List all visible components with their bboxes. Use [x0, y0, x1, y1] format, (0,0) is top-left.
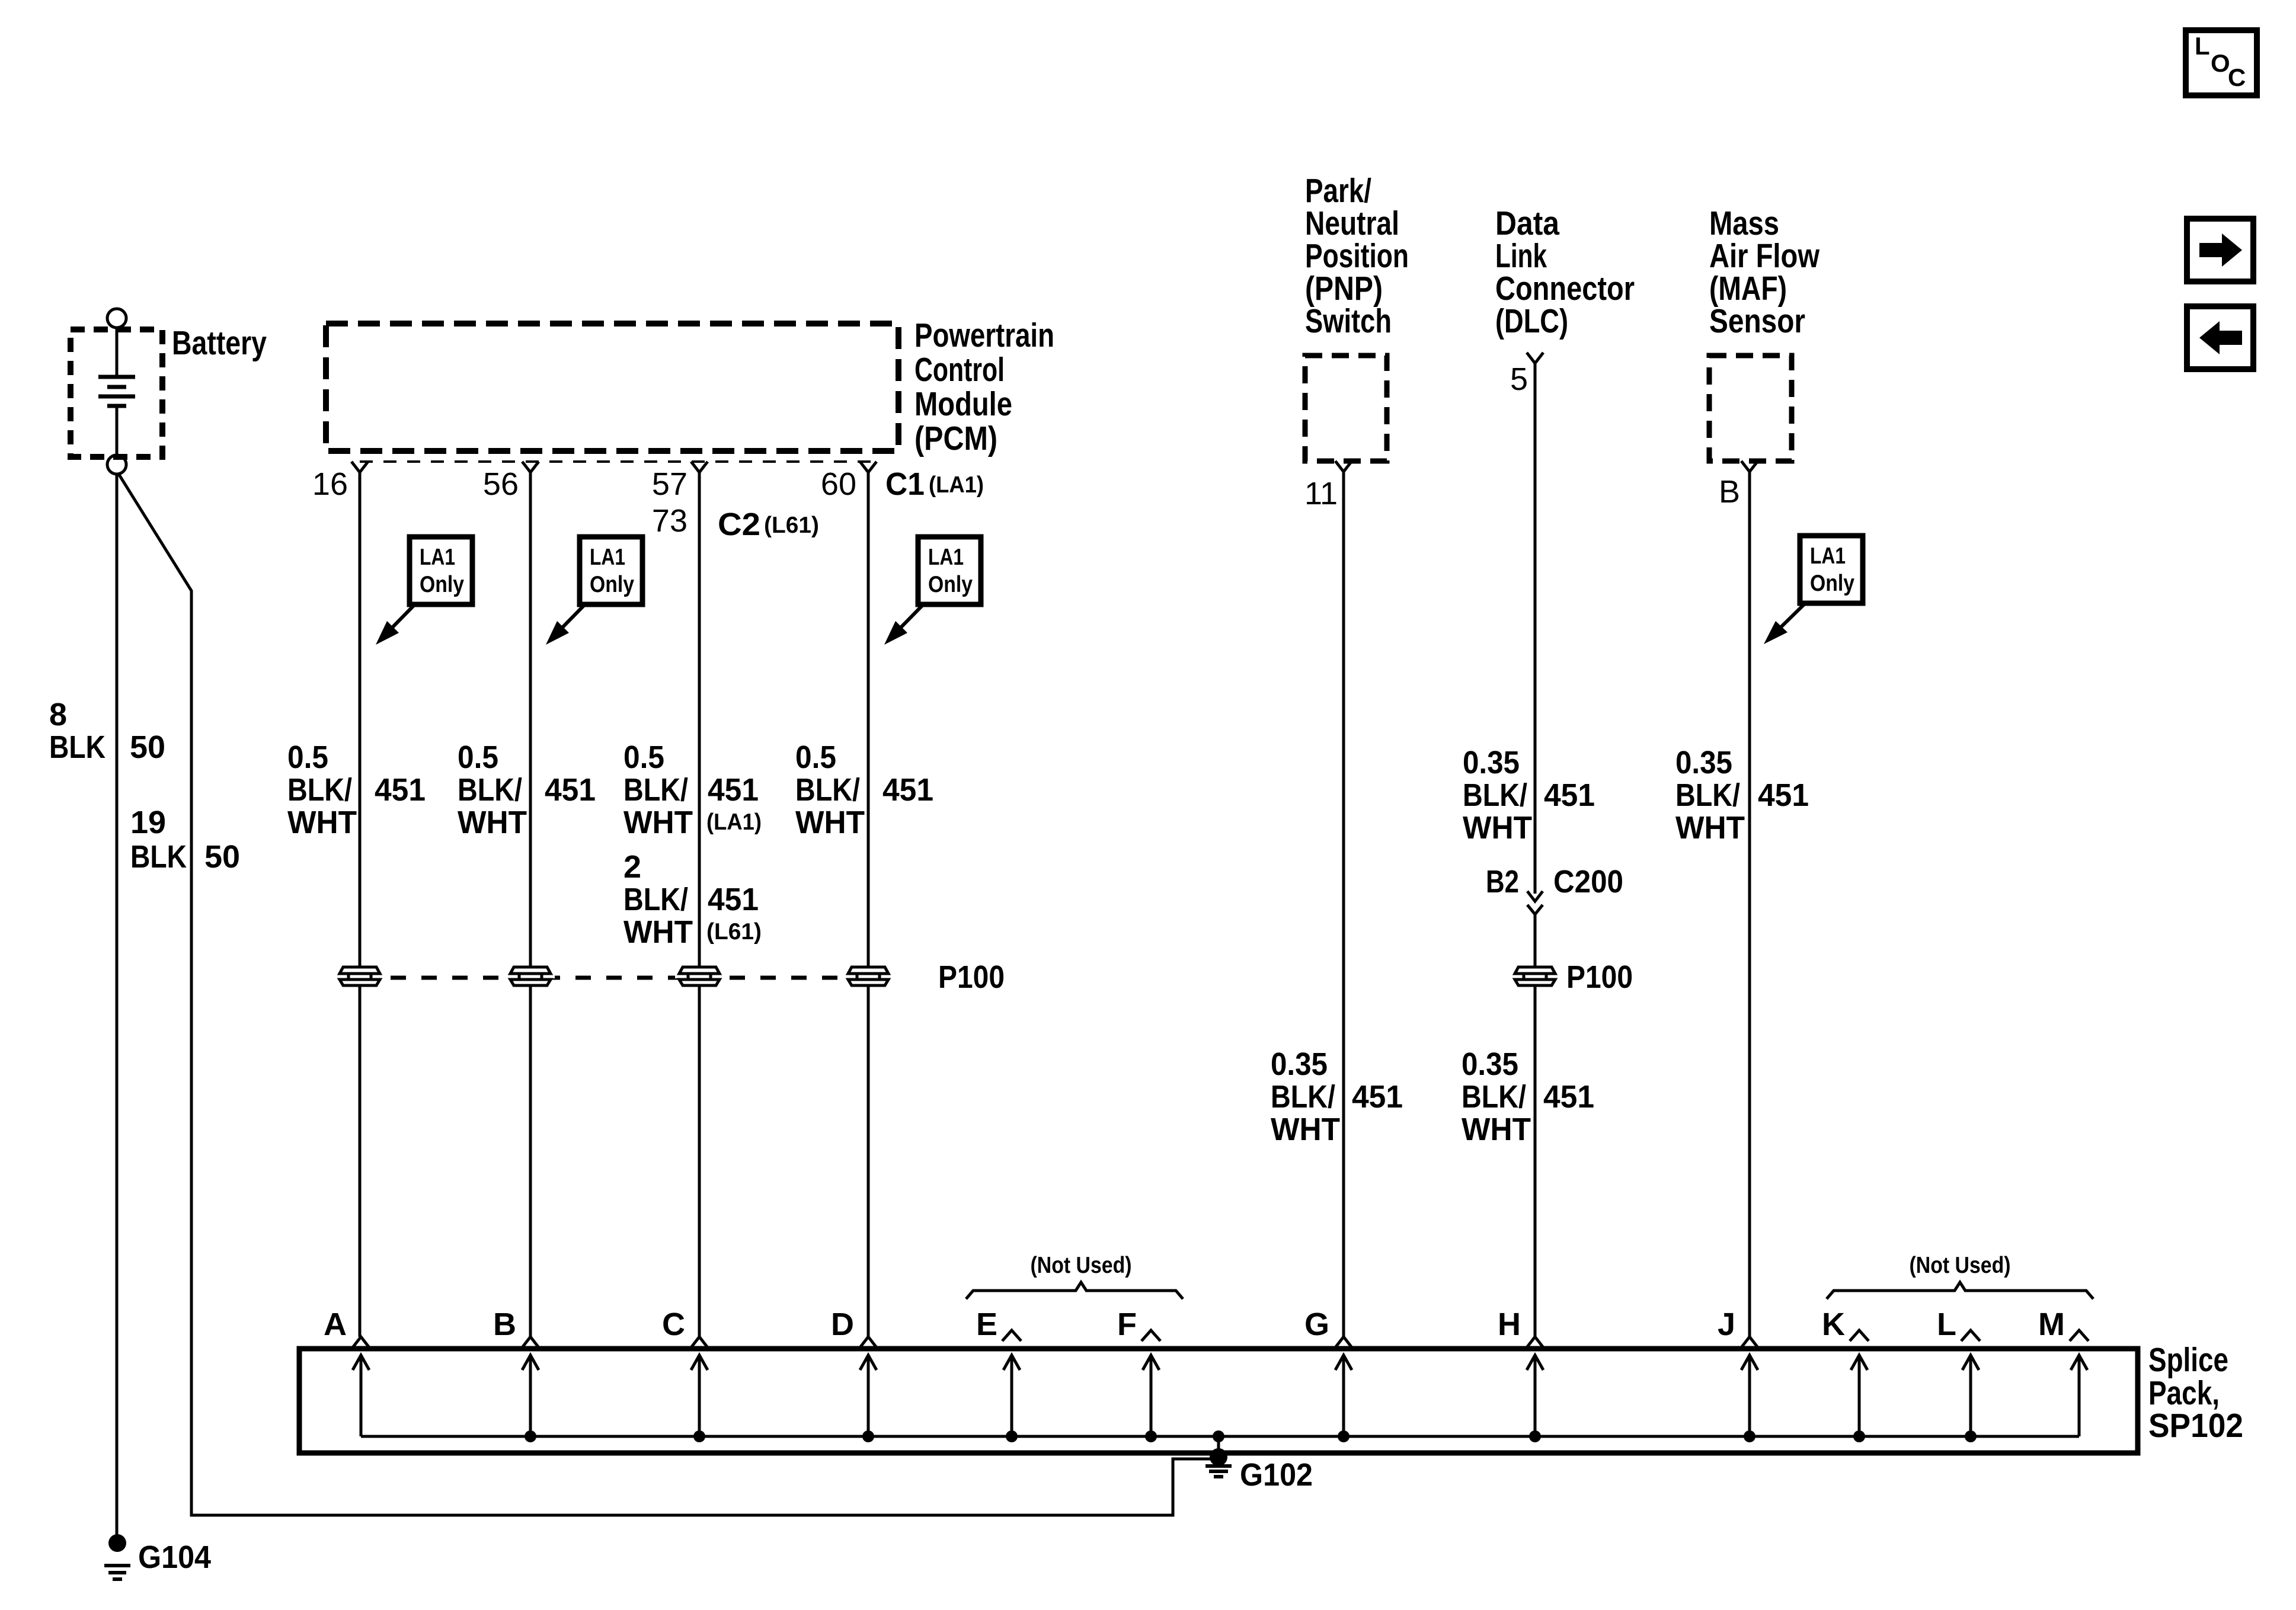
svg-text:451: 451 — [1543, 1079, 1594, 1115]
nav arrow left box — [2187, 306, 2253, 369]
splice terminal H fork — [1527, 1337, 1543, 1347]
label 0.5 BLK/WHT (wire B) — [458, 740, 527, 840]
label 8 BLK — [49, 697, 105, 765]
splice terminal A riser arrow — [353, 1355, 369, 1436]
svg-text:WHT: WHT — [1462, 1112, 1531, 1147]
splice terminal F riser arrow — [1143, 1355, 1159, 1436]
junction dot H — [1529, 1430, 1541, 1442]
svg-text:B: B — [1719, 474, 1740, 510]
wire 451 BLK/WHT (PCM to splice B) — [529, 472, 532, 1337]
svg-text:G102: G102 — [1240, 1457, 1313, 1493]
wire 19 BLK 50 (battery to G102) — [118, 473, 1215, 1515]
svg-text:P100: P100 — [938, 959, 1005, 995]
PNP switch box — [1305, 356, 1387, 461]
connector label C1 (LA1) — [885, 466, 984, 502]
splice terminal B riser arrow — [522, 1355, 539, 1436]
splice pack SP102 box — [299, 1349, 2138, 1453]
splice terminal C riser arrow — [691, 1355, 708, 1436]
PCM pin 60 connector fork — [860, 462, 877, 472]
splice terminal J fork — [1741, 1337, 1758, 1347]
junction dot B — [525, 1430, 536, 1442]
svg-text:451: 451 — [882, 772, 933, 808]
splice terminal E stub (not used) — [1002, 1330, 1021, 1341]
splice pack internal bus — [361, 1435, 2079, 1438]
svg-text:Module: Module — [914, 385, 1012, 423]
callout LA1 Only (wire A) — [376, 537, 472, 645]
svg-text:11: 11 — [1304, 476, 1338, 511]
svg-text:0.35: 0.35 — [1675, 745, 1732, 780]
svg-text:Control: Control — [914, 351, 1005, 389]
ground G102 stem — [1217, 1436, 1220, 1457]
svg-text:0.5: 0.5 — [287, 740, 328, 775]
svg-text:LA1: LA1 — [420, 545, 455, 570]
svg-text:73: 73 — [652, 503, 687, 539]
junction dot L — [1965, 1430, 1977, 1442]
svg-text:WHT: WHT — [795, 805, 865, 840]
PCM box (Powertrain Control Module) — [326, 324, 898, 451]
svg-text:L: L — [1937, 1307, 1956, 1342]
svg-text:E: E — [976, 1307, 997, 1342]
svg-text:A: A — [324, 1307, 347, 1342]
svg-text:0.35: 0.35 — [1271, 1046, 1328, 1082]
ground G102 — [1205, 1448, 1232, 1477]
junction dot K — [1853, 1430, 1865, 1442]
label Park/Neutral Position (PNP) Switch — [1305, 172, 1409, 340]
splice terminal D fork — [860, 1337, 877, 1347]
label Powertrain Control Module (PCM) — [914, 316, 1054, 457]
svg-text:LA1: LA1 — [928, 545, 964, 570]
svg-text:451: 451 — [545, 772, 596, 808]
splice terminal E riser arrow — [1003, 1355, 1020, 1436]
wire 451 BLK/WHT (PCM to splice A) — [359, 472, 362, 1337]
svg-text:0.35: 0.35 — [1462, 1046, 1518, 1082]
svg-text:WHT: WHT — [1463, 810, 1532, 846]
svg-text:BLK/: BLK/ — [623, 772, 688, 808]
svg-text:50: 50 — [130, 729, 165, 765]
splice terminal G riser arrow — [1335, 1355, 1352, 1436]
svg-text:O: O — [2211, 49, 2230, 77]
svg-text:451: 451 — [1758, 777, 1809, 813]
LOC reference box — [2186, 30, 2257, 95]
label 0.35 BLK/WHT (wire G) — [1271, 1046, 1340, 1147]
svg-text:J: J — [1718, 1307, 1735, 1342]
svg-text:B: B — [493, 1307, 516, 1342]
wire 451 BLK/WHT (C200 to splice H) — [1534, 913, 1537, 1337]
svg-text:57: 57 — [652, 466, 687, 502]
svg-text:(DLC): (DLC) — [1495, 302, 1568, 340]
svg-text:LA1: LA1 — [1810, 543, 1846, 569]
svg-text:(Not Used): (Not Used) — [1031, 1253, 1132, 1278]
grommet P100 (wire A) — [335, 967, 384, 985]
svg-text:P100: P100 — [1566, 959, 1633, 995]
splice terminal M riser arrow — [2071, 1355, 2087, 1436]
svg-text:451: 451 — [708, 882, 759, 917]
svg-text:0.5: 0.5 — [795, 740, 836, 775]
label 451 (LA1) (wire C) — [706, 772, 762, 835]
svg-text:(L61): (L61) — [764, 513, 819, 538]
connector label C2 (L61) — [718, 507, 819, 542]
P100 pass-through dashed link — [360, 976, 868, 980]
wire 451 BLK/WHT (MAF to splice J) — [1748, 472, 1751, 1337]
svg-text:50: 50 — [204, 839, 240, 875]
label 2 BLK/WHT (wire C, L61) — [623, 849, 693, 950]
splice terminal L stub (not used) — [1961, 1330, 1980, 1341]
wire 451 BLK/WHT (DLC to C200) — [1534, 363, 1537, 894]
label 0.5 BLK/WHT (wire C) — [623, 740, 693, 840]
svg-text:Splice: Splice — [2148, 1341, 2228, 1379]
splice terminal G fork — [1335, 1337, 1352, 1347]
svg-text:WHT: WHT — [623, 805, 693, 840]
svg-text:C200: C200 — [1553, 864, 1623, 900]
svg-text:WHT: WHT — [1271, 1112, 1340, 1147]
ground G102 tap junction — [1213, 1430, 1224, 1442]
label 0.35 BLK/WHT (wire H) — [1462, 1046, 1531, 1147]
label 19 BLK — [130, 805, 187, 875]
junction dot E — [1006, 1430, 1018, 1442]
svg-text:Only: Only — [928, 572, 973, 597]
label 0.35 BLK/WHT (wire J) — [1675, 745, 1745, 846]
svg-text:Sensor: Sensor — [1709, 302, 1805, 340]
svg-text:F: F — [1117, 1307, 1137, 1342]
callout LA1 Only (wire D) — [884, 537, 981, 645]
svg-text:451: 451 — [1352, 1079, 1403, 1115]
svg-text:5: 5 — [1510, 361, 1528, 397]
svg-text:8: 8 — [49, 697, 67, 732]
wire 451 BLK/WHT (PNP to splice G) — [1342, 472, 1345, 1337]
svg-text:G: G — [1304, 1307, 1329, 1342]
svg-text:G104: G104 — [138, 1539, 211, 1575]
MAF sensor box — [1709, 356, 1792, 461]
svg-text:0.5: 0.5 — [623, 740, 664, 775]
svg-text:451: 451 — [708, 772, 759, 808]
grommet P100 (wire B) — [506, 967, 555, 985]
svg-text:WHT: WHT — [623, 914, 693, 950]
svg-text:BLK/: BLK/ — [1675, 777, 1740, 813]
svg-text:LA1: LA1 — [590, 545, 625, 570]
DLC pin 5 connector fork — [1527, 353, 1543, 363]
svg-text:WHT: WHT — [458, 805, 527, 840]
svg-text:BLK/: BLK/ — [795, 772, 860, 808]
svg-text:16: 16 — [312, 466, 348, 502]
splice terminal A fork — [353, 1337, 369, 1347]
wire 8 BLK 50 (battery to G104) — [116, 474, 119, 1538]
PNP pin 11 connector fork — [1335, 461, 1352, 472]
svg-text:M: M — [2038, 1307, 2065, 1342]
svg-text:451: 451 — [375, 772, 426, 808]
grommet P100 (wire C) — [675, 967, 724, 985]
inline connector C200 terminal B2 — [1527, 891, 1543, 914]
svg-text:19: 19 — [130, 805, 166, 840]
svg-text:Only: Only — [590, 572, 634, 597]
svg-text:451: 451 — [1544, 777, 1595, 813]
svg-text:WHT: WHT — [287, 805, 357, 840]
svg-text:Switch: Switch — [1305, 302, 1392, 340]
svg-text:BLK/: BLK/ — [1463, 777, 1527, 813]
svg-text:L: L — [2195, 32, 2210, 60]
splice terminal B fork — [522, 1337, 539, 1347]
junction dot J — [1744, 1430, 1755, 1442]
svg-text:C1: C1 — [885, 466, 925, 502]
svg-text:D: D — [831, 1307, 854, 1342]
splice terminal F stub (not used) — [1141, 1330, 1160, 1341]
wire 451 BLK/WHT (PCM to splice C) — [698, 472, 701, 1337]
grommet P100 (DLC wire) — [1511, 967, 1559, 985]
splice terminal L riser arrow — [1962, 1355, 1979, 1436]
splice terminal K riser arrow — [1851, 1355, 1868, 1436]
battery — [71, 309, 162, 474]
svg-text:Only: Only — [420, 572, 464, 597]
splice terminal C fork — [691, 1337, 708, 1347]
label 0.35 BLK/WHT (DLC upper) — [1463, 745, 1532, 846]
svg-text:Battery: Battery — [172, 324, 267, 362]
nav arrow right box — [2187, 219, 2253, 281]
svg-text:C: C — [2228, 63, 2246, 91]
junction dot D — [862, 1430, 874, 1442]
svg-text:BLK/: BLK/ — [623, 882, 688, 917]
svg-text:60: 60 — [821, 466, 856, 502]
svg-text:(L61): (L61) — [706, 919, 762, 945]
svg-text:2: 2 — [623, 849, 641, 885]
label 451 (L61) (wire C) — [706, 882, 762, 945]
PCM pin 57 connector fork — [691, 462, 708, 472]
bracket (Not Used) E F — [966, 1282, 1183, 1299]
junction dot F — [1145, 1430, 1157, 1442]
svg-text:BLK/: BLK/ — [458, 772, 522, 808]
label Data Link Connector (DLC) — [1495, 204, 1635, 340]
wire 451 BLK/WHT (PCM to splice D) — [867, 472, 870, 1337]
ground G104 — [104, 1534, 130, 1579]
splice terminal H riser arrow — [1527, 1355, 1543, 1436]
svg-text:BLK/: BLK/ — [1462, 1079, 1526, 1115]
svg-text:BLK/: BLK/ — [287, 772, 352, 808]
label Splice Pack, SP102 — [2148, 1341, 2243, 1445]
svg-text:H: H — [1498, 1307, 1521, 1342]
svg-text:(LA1): (LA1) — [706, 809, 762, 835]
bracket (Not Used) K L M — [1827, 1282, 2093, 1299]
MAF pin B connector fork — [1741, 461, 1758, 472]
svg-text:Only: Only — [1810, 571, 1854, 596]
svg-text:C: C — [662, 1307, 685, 1342]
svg-text:BLK: BLK — [130, 839, 187, 875]
grommet P100 (wire D) — [844, 967, 893, 985]
splice terminal K stub (not used) — [1850, 1330, 1869, 1341]
label Mass Air Flow (MAF) Sensor — [1709, 204, 1820, 340]
svg-text:0.35: 0.35 — [1463, 745, 1520, 780]
svg-text:(Not Used): (Not Used) — [1910, 1253, 2011, 1278]
svg-text:SP102: SP102 — [2148, 1407, 2243, 1445]
svg-text:C2: C2 — [718, 507, 760, 542]
label 0.5 BLK/WHT (wire D) — [795, 740, 865, 840]
splice terminal J riser arrow — [1741, 1355, 1758, 1436]
svg-text:B2: B2 — [1486, 864, 1519, 900]
svg-text:K: K — [1822, 1307, 1845, 1342]
junction dot G — [1338, 1430, 1350, 1442]
splice terminal M stub (not used) — [2070, 1330, 2089, 1341]
callout LA1 Only (wire B) — [546, 537, 642, 645]
svg-text:(PCM): (PCM) — [914, 420, 997, 457]
junction dot C — [693, 1430, 705, 1442]
svg-text:0.5: 0.5 — [458, 740, 498, 775]
svg-text:56: 56 — [483, 466, 519, 502]
svg-text:BLK: BLK — [49, 729, 105, 765]
svg-text:BLK/: BLK/ — [1271, 1079, 1335, 1115]
splice terminal D riser arrow — [860, 1355, 877, 1436]
callout LA1 Only (MAF wire) — [1764, 536, 1863, 644]
PCM pin 56 connector fork — [522, 462, 539, 472]
PCM connector C1/C2 dashed line — [360, 460, 871, 463]
label 0.5 BLK/WHT (wire A) — [287, 740, 357, 840]
svg-text:Powertrain: Powertrain — [914, 316, 1054, 354]
svg-text:WHT: WHT — [1675, 810, 1745, 846]
svg-text:(LA1): (LA1) — [929, 472, 984, 498]
PCM pin 16 connector fork — [351, 462, 368, 472]
